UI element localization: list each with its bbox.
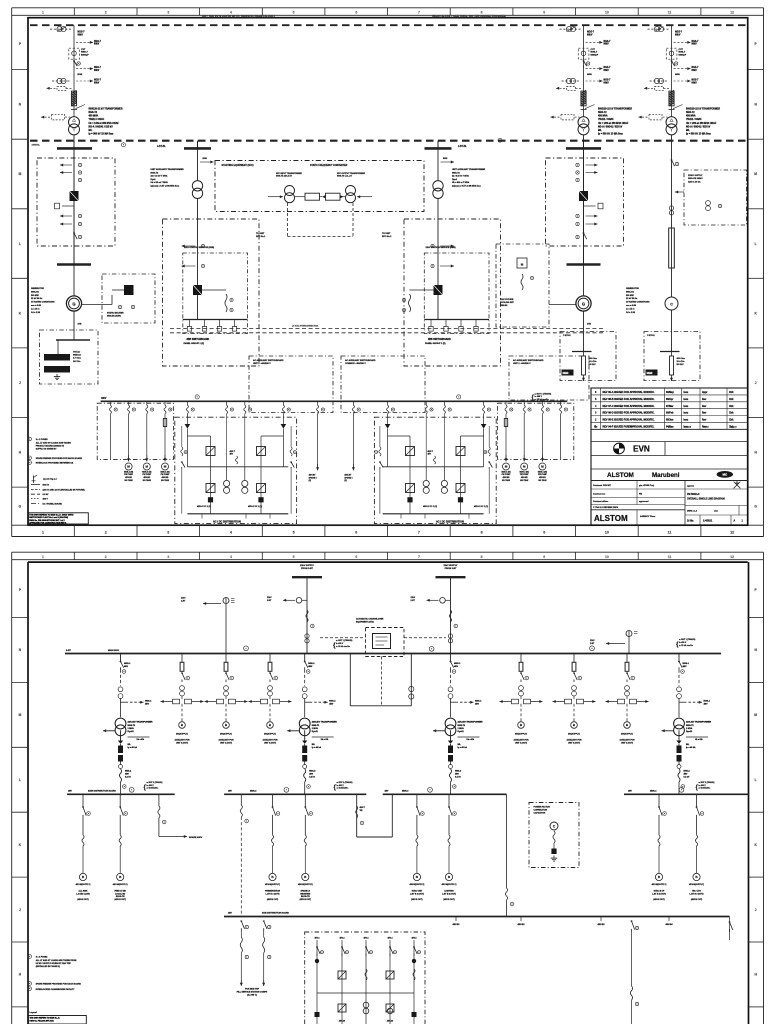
svg-text:MAIN DISTRIBUTION BOARD: MAIN DISTRIBUTION BOARD (88, 789, 116, 792)
svg-text:AC AUXILIARY SWITCHBOARD: AC AUXILIARY SWITCHBOARD (345, 359, 376, 362)
svg-text:NGS: NGS (203, 158, 208, 160)
feeder disconnector blade (521, 673, 524, 680)
400V feeder squiggle breaker (352, 401, 354, 405)
svg-text:NGS-7: NGS-7 (692, 67, 700, 69)
svg-text:Chk: Chk (729, 399, 734, 401)
segment B-C tie U-link (356, 794, 358, 837)
svg-text:4BV-3: 4BV-3 (364, 937, 369, 940)
svg-text:APPROVED FOR CONSTRUCTION REV: APPROVED FOR CONSTRUCTION REV 6 (29, 522, 66, 525)
unit aux tee busbar 1 (184, 147, 211, 150)
transformer LV black arrow down (118, 741, 123, 744)
bus node circles 400V (195, 395, 199, 399)
svg-text:WS / LTG: WS / LTG (692, 891, 701, 893)
inverter crossbox 2a (456, 484, 465, 493)
cable termination mark (585, 105, 595, 109)
svg-text:4BV-M(SUPPLY): 4BV-M(SUPPLY) (689, 883, 704, 886)
svg-text:(--B MD 1.(OR): (--B MD 1.(OR) (76, 893, 90, 895)
tap arrow right with label (121, 701, 129, 703)
bus meter node circles (244, 646, 249, 651)
svg-text:8-BT: 8-BT (66, 650, 72, 652)
drop load circle (269, 873, 276, 880)
svg-text:Contract: PHU MY: Contract: PHU MY (593, 484, 612, 487)
svg-text:FILL SERVICE STATION COMPR: FILL SERVICE STATION COMPR (237, 991, 268, 994)
svg-text:(2): (2) (344, 480, 347, 482)
sub bus right drop 1 (632, 921, 635, 930)
station service inner dashed box (424, 253, 489, 334)
svg-text:4BV-D DC 1 (2): 4BV-D DC 1 (2) (248, 505, 262, 508)
svg-text:b: 400 V: b: 400 V (679, 641, 687, 644)
transformer LV arrow left (103, 730, 116, 732)
svg-text:NGS-1: NGS-1 (475, 700, 482, 702)
svg-text:L: L (19, 242, 21, 246)
column ruler ticks top (73, 552, 75, 560)
LV feeder squiggle (678, 744, 680, 746)
svg-text:4BV: 4BV (454, 665, 459, 668)
sheet 2 notes (28, 955, 32, 959)
station service inner dashed box (183, 253, 248, 334)
motor feeder arrow (505, 455, 507, 462)
svg-text:NGS-T2: NGS-T2 (686, 112, 695, 114)
svg-text:STATIC FREQUENCY CONVERTER: STATIC FREQUENCY CONVERTER (310, 164, 348, 167)
drop squiggle (304, 835, 306, 846)
svg-text:c: Ik=15kA/1s: c: Ik=15kA/1s (699, 787, 711, 790)
svg-text:Dyn11: Dyn11 (686, 731, 693, 733)
unit auxiliary transformer (two winding circles) (433, 181, 443, 191)
svg-text:NGS-CB 245kV: NGS-CB 245kV (688, 177, 703, 180)
svg-text:AUXILIARY FOR: AUXILIARY FOR (567, 739, 583, 742)
400V feeder squiggle breaker (164, 401, 166, 405)
big ALSTOM logotype bottom (591, 509, 685, 511)
svg-text:c: 15 kA rms/1s: c: 15 kA rms/1s (336, 645, 350, 648)
svg-text:NGS-2: NGS-2 (309, 771, 316, 773)
svg-text:1250 A 40 kA: 1250 A 40 kA (688, 180, 701, 183)
drawout arrows and sockets (553, 701, 565, 703)
metering circle and arrow (440, 598, 446, 604)
wire below rectifier (483, 429, 485, 467)
svg-text:NGS-7: NGS-7 (604, 41, 612, 43)
svg-text:Uk = 14% at 450 MVA ONAF: Uk = 14% at 450 MVA ONAF (89, 122, 120, 125)
right ruler band (763, 15, 765, 525)
svg-text:LOCAL BD: LOCAL BD (115, 892, 126, 895)
drop load circle (655, 873, 662, 880)
drop load circle (693, 873, 700, 880)
svg-text:L-BT B 2 (OUT): L-BT B 2 (OUT) (442, 893, 456, 895)
svg-text:3: 3 (167, 10, 169, 14)
breaker side isolator stub (584, 205, 596, 207)
svg-text:M: M (146, 465, 149, 469)
svg-text:MG(SUPPLY): MG(SUPPLY) (515, 734, 527, 736)
wire to 400V main distribution bus (304, 782, 306, 794)
svg-text:SPARE LV: SPARE LV (301, 890, 311, 893)
cable termination mark (673, 105, 683, 109)
svg-text:ALL LT AND ST LOADS ARE TAKEN: ALL LT AND ST LOADS ARE TAKEN (36, 441, 72, 444)
station service switchgear outer dashed box (404, 219, 501, 366)
svg-text:NGS: NGS (587, 74, 592, 76)
svg-text:11: 11 (668, 10, 672, 14)
svg-text:EVN: EVN (633, 445, 650, 454)
svg-text:Issu: Issu (684, 420, 689, 422)
tap arrow right with label (451, 701, 459, 703)
svg-text:Uk = 6%: Uk = 6% (467, 739, 475, 741)
incoming squiggle breaker (306, 610, 308, 622)
svg-text:6.6 kV: 6.6 kV (43, 494, 50, 496)
svg-text:Title: Title (628, 426, 633, 429)
svg-text:DC / PANEL BOUND: DC / PANEL BOUND (43, 502, 63, 505)
wire below rectifier (387, 429, 389, 467)
wire below rectifier (282, 429, 284, 467)
MCC fuse feeder rect (163, 419, 166, 427)
svg-text:450 MVA: 450 MVA (686, 115, 696, 118)
charger crossbox 1b (257, 447, 266, 456)
svg-text:a: NOT 1 (750kVA): a: NOT 1 (750kVA) (337, 781, 353, 784)
svg-text:HVAC B OP: HVAC B OP (654, 890, 665, 893)
svg-text:MAIN BUS: MAIN BUS (108, 649, 119, 652)
UPS side squiggle chain b (290, 447, 292, 456)
wire generator 2 to excitation box (549, 304, 576, 306)
22kV dashed distribution bus (30, 140, 746, 142)
svg-text:UNIT 2 - 400/230 V: UNIT 2 - 400/230 V (513, 362, 531, 365)
svg-text:FROM LV BOARD (400/230 V): FROM LV BOARD (400/230 V) (36, 445, 65, 448)
SFC converter reactor 1 (rect) (305, 193, 320, 200)
svg-text:5: 5 (293, 555, 295, 559)
svg-text:Rev: Rev (702, 420, 707, 422)
svg-text:Uk = 14% at 450 MVA ONAF: Uk = 14% at 450 MVA ONAF (598, 122, 629, 125)
svg-text:MDB-1 (M): MDB-1 (M) (538, 472, 548, 474)
svg-text:300 MW: 300 MW (31, 295, 39, 297)
svg-text:NGS-7: NGS-7 (94, 41, 102, 43)
svg-text:22kV SUPPLY: 22kV SUPPLY (300, 565, 315, 567)
svg-text:ta = 45 C: ta = 45 C (626, 307, 635, 310)
svg-text:SPARE 400V: SPARE 400V (189, 836, 203, 839)
svg-text:AUXILIARY FOR: AUXILIARY FOR (620, 739, 636, 742)
column ruler ticks top (73, 8, 75, 16)
svg-text:MDB-1 (M): MDB-1 (M) (520, 472, 530, 474)
svg-text:PANEL GROUP 1 (2): PANEL GROUP 1 (2) (425, 342, 446, 345)
surge arrester tap with arrow (76, 41, 93, 43)
current transformer pair on line (562, 80, 581, 82)
motor feeder arrow (541, 455, 543, 462)
drop load circle (79, 873, 86, 880)
svg-text:NGS-1: NGS-1 (308, 663, 315, 665)
feeder disconnector blade (182, 673, 185, 680)
svg-text:AN : 500 kV a 220 50 Hz PL 5: AN : 500 kV a 220 50 Hz PL 500kV/11 (NGM… (202, 14, 275, 18)
svg-text:NGS-7: NGS-7 (591, 52, 598, 54)
svg-text:ALSTOM: ALSTOM (607, 472, 634, 479)
arrow tap 4 (60, 223, 72, 225)
svg-text:60kV: 60kV (692, 82, 698, 84)
svg-text:PRESERVATION: PRESERVATION (265, 890, 281, 893)
panel reactor squiggle (225, 294, 227, 312)
svg-text:3 x 1 FUSES: 3 x 1 FUSES (36, 957, 48, 959)
feeder CT circles (519, 686, 524, 691)
inverter crossbox 2b (406, 484, 415, 493)
svg-text:2-BT-BL: 2-BT-BL (458, 146, 467, 148)
svg-text:12: 12 (730, 10, 734, 14)
distribution transformer (two winding circles) (674, 718, 685, 729)
svg-text:0.4 kV: 0.4 kV (309, 775, 315, 778)
400V feeder squiggle breaker (128, 401, 130, 405)
svg-text:G: G (72, 301, 75, 306)
excitation circled numbers (118, 305, 121, 308)
svg-text:SFC No.1: SFC No.1 (256, 236, 266, 238)
svg-text:a: NOT 1 (750kVA): a: NOT 1 (750kVA) (535, 392, 552, 395)
svg-text:450 MVA: 450 MVA (89, 115, 99, 118)
charger crossbox 1b (406, 447, 415, 456)
svg-text:C 794-2-2 REVIEW DWG: C 794-2-2 REVIEW DWG (593, 506, 618, 509)
capacitive voltage transformer in dashed box (69, 48, 80, 59)
400V feeder squiggle breaker (387, 401, 389, 405)
dashed wire to motor (626, 704, 628, 722)
automatic changeover dashed box (366, 628, 405, 657)
EVN logo circle (614, 443, 625, 454)
svg-text:4BV: 4BV (455, 772, 460, 775)
svg-text:UNIT 1 (OUT): UNIT 1 (OUT) (568, 742, 580, 744)
drawout arrows and sockets (249, 701, 261, 703)
svg-text:16 Ma: 16 Ma (687, 521, 694, 523)
segment A spare stub (158, 806, 160, 818)
incomer breaker (filled square) (434, 285, 443, 295)
sub-distribution drop blade (696, 794, 698, 807)
svg-text:NGS-E1 (AVR): NGS-E1 (AVR) (107, 315, 121, 318)
feeder CT circles (625, 686, 630, 691)
svg-text:approx: approx (687, 485, 695, 488)
svg-text:Ip(max) = 0.57 at 88 MVA 5ms: Ip(max) = 0.57 at 88 MVA 5ms (151, 185, 181, 188)
svg-text:10 A 10s: 10 A 10s (677, 360, 686, 363)
svg-text:LIGHTING: LIGHTING (444, 891, 454, 893)
cable sealing end arrow left (655, 86, 664, 90)
drop wire down (696, 846, 698, 873)
LV breaker black blocks (677, 746, 682, 754)
feeder stubs with breakers below bus (189, 320, 191, 327)
svg-text:NG 1kV: NG 1kV (589, 364, 597, 366)
current transformer pair on line (52, 80, 71, 82)
svg-text:5000pF: 5000pF (81, 55, 89, 57)
drop load circle (445, 873, 452, 880)
dashed wire to motor (573, 704, 575, 722)
tap arrow right with label (305, 701, 313, 703)
svg-text:FW PUMP: FW PUMP (161, 474, 170, 476)
generator tee busbar (57, 263, 91, 266)
svg-text:a: NOT 1 (750kVA): a: NOT 1 (750kVA) (679, 638, 696, 641)
svg-text:5: 5 (293, 10, 295, 14)
svg-text:a) pole leg p-1: a) pole leg p-1 (43, 478, 58, 480)
svg-text:MDB-3: MDB-3 (402, 790, 409, 792)
svg-text:500/220-22 kV TRANSFORMER: 500/220-22 kV TRANSFORMER (686, 108, 720, 111)
revision table (591, 387, 748, 389)
svg-text:Ip = 40 kA: Ip = 40 kA (312, 746, 322, 749)
legend line type 3 (31, 493, 40, 495)
surge arrester tap with arrow (674, 41, 691, 43)
svg-text:NGS-7: NGS-7 (604, 67, 612, 69)
svg-text:SUB DISTRIBUTION BOARD: SUB DISTRIBUTION BOARD (262, 912, 289, 915)
svg-text:4BV-M(SUPPLY): 4BV-M(SUPPLY) (265, 883, 280, 886)
motor circle (179, 722, 186, 729)
svg-text:FROM 2-BT: FROM 2-BT (301, 568, 313, 570)
UPS side squiggle chain a (488, 447, 490, 456)
svg-text:Apprd: Apprd (730, 426, 737, 429)
svg-text:4BV-D DC 1 (2): 4BV-D DC 1 (2) (423, 505, 437, 508)
battery circles b (242, 480, 248, 486)
svg-text:Ip(max) = 0.57 at 88 MVA 5ms: Ip(max) = 0.57 at 88 MVA 5ms (452, 185, 482, 188)
MCC feeder wire (128, 414, 130, 460)
wire to 400V main distribution bus (450, 782, 452, 794)
svg-text:11: 11 (668, 531, 672, 535)
svg-text:AUXILIARY FOR: AUXILIARY FOR (175, 739, 191, 742)
svg-text:COOLING SET: COOLING SET (500, 302, 515, 304)
svg-text:CVT: CVT (81, 49, 86, 51)
drop wire down (448, 846, 450, 873)
svg-text:COMMON - 400/230 V: COMMON - 400/230 V (345, 362, 366, 365)
svg-text:Ip = 500 kV 13 MA 5ms: Ip = 500 kV 13 MA 5ms (598, 132, 624, 135)
voltage transformer stub (78, 178, 81, 181)
svg-text:22 kV 50 Hz: 22 kV 50 Hz (626, 298, 637, 300)
svg-text:AUXILIARY FOR: AUXILIARY FOR (514, 739, 530, 742)
svg-text:STATIC EXCITER: STATIC EXCITER (107, 312, 124, 315)
drawout arrows and sockets (161, 701, 173, 703)
svg-text:M: M (523, 465, 526, 469)
cable sealing end arrow left (567, 86, 576, 90)
svg-text:Date: Date (668, 426, 674, 429)
LC panel dashed box B (341, 356, 425, 413)
note 1 with circled number (28, 437, 32, 441)
svg-text:L-BT B 2 (OUT): L-BT B 2 (OUT) (690, 893, 704, 895)
svg-text:NG-A / 60/241 / 525 kV: NG-A / 60/241 / 525 kV (686, 125, 711, 128)
unit 2 tee busbar (566, 147, 601, 150)
svg-text:b: 400 V: b: 400 V (337, 784, 345, 787)
svg-text:4BV-T: 4BV-T (428, 450, 434, 453)
charger vertical wires (460, 436, 462, 514)
bottom box link line (317, 992, 414, 994)
svg-text:PANEL GROUP 1 (2): PANEL GROUP 1 (2) (184, 342, 205, 345)
wire to 400V main distribution bus (678, 782, 680, 794)
svg-text:4BV-M(SUPPLY): 4BV-M(SUPPLY) (410, 883, 425, 886)
400V feeder squiggle breaker (109, 401, 111, 405)
svg-text:NGS-7: NGS-7 (604, 79, 612, 81)
svg-text:ARRIVAL: ARRIVAL (32, 144, 41, 147)
incoming wire to bus (450, 577, 452, 653)
svg-text:NGS-T1: NGS-T1 (458, 725, 466, 727)
svg-text:BIL: BIL (89, 130, 93, 132)
bay 3 side metering dashed box (684, 170, 747, 225)
svg-text:L: L (755, 778, 757, 782)
EVN logo row (591, 455, 748, 457)
earthing transformer (filled blocks) (57, 340, 59, 354)
MCC feeder wire (560, 414, 562, 460)
svg-text:ALL LT AND ST LOADS ARE TAKEN: ALL LT AND ST LOADS ARE TAKEN FROM (36, 959, 77, 962)
svg-text:Rev: Rev (702, 399, 707, 401)
svg-text:L: L (19, 778, 21, 782)
svg-text:NGS-1: NGS-1 (329, 700, 336, 702)
sub-distribution drop blade (304, 794, 306, 807)
svg-text:Issu: Issu (684, 406, 689, 408)
svg-text:3 x 1 FUSES: 3 x 1 FUSES (36, 439, 49, 441)
svg-text:RECEIVED: RECEIVED (300, 893, 311, 895)
svg-text:4BV-M(SUPPLY): 4BV-M(SUPPLY) (113, 883, 128, 886)
MCC dashed box unit 2 (498, 403, 574, 459)
svg-text:BLDG-TN: BLDG-TN (301, 896, 310, 898)
SFC input arrow (268, 196, 283, 198)
svg-text:4BV: 4BV (145, 702, 150, 705)
svg-text:(4BV-B OUT): (4BV-B OUT) (267, 898, 279, 901)
svg-text:b: 400 V: b: 400 V (336, 642, 344, 645)
svg-text:4BV-B2: 4BV-B2 (517, 923, 525, 926)
svg-text:AC AUXILIARY SWITCHBOARD: AC AUXILIARY SWITCHBOARD (513, 359, 544, 362)
svg-text:60kV: 60kV (94, 82, 100, 84)
motor feeder fuse (181, 654, 183, 663)
svg-text:J: J (755, 381, 757, 385)
svg-text:Uk = 8% at 7 MVA: Uk = 8% at 7 MVA (452, 181, 470, 184)
transformer LV black arrow down (676, 741, 681, 744)
motor circle (521, 463, 528, 470)
svg-text:4BV-M2: 4BV-M2 (143, 476, 150, 479)
sub-distribution drop blade (272, 794, 274, 807)
svg-text:NGS-1: NGS-1 (454, 663, 461, 665)
svg-text:Xd = 2.38: Xd = 2.38 (626, 312, 636, 314)
400V feeder squiggle breaker (443, 401, 445, 405)
svg-text:FW PUMP: FW PUMP (142, 474, 151, 476)
generator neutral wire (583, 311, 585, 331)
svg-text:450 MVA: 450 MVA (598, 115, 608, 118)
UPS bottom bus (187, 513, 288, 515)
svg-text:NG 75kW: NG 75kW (502, 480, 510, 482)
HV cable (hatched bar) (669, 91, 674, 106)
svg-text:CVT: CVT (591, 49, 596, 51)
drawing frame outer border (12, 551, 764, 553)
svg-text:500/220-22 kV TRANSFORMER: 500/220-22 kV TRANSFORMER (89, 108, 123, 111)
svg-text:NGS-T2: NGS-T2 (598, 112, 607, 114)
svg-text:ALSTOM: ALSTOM (594, 514, 628, 523)
starting frequency converter SFC dashed box (215, 161, 424, 212)
MCC feeder wire (164, 414, 166, 460)
NGR label (filled) (646, 370, 658, 376)
svg-text:22/0.4kV TRANSFORMER: 22/0.4kV TRANSFORMER (128, 721, 154, 724)
drawing frame outer border (12, 7, 764, 9)
note 3 (28, 461, 32, 465)
400V main distribution bus segment A (67, 793, 175, 795)
svg-text:LV BD / SUPPLY GIVEN BY 22kV T: LV BD / SUPPLY GIVEN BY 22kV TRF (36, 963, 72, 965)
bay 3 machine circle (665, 297, 678, 310)
feeder CT circles (180, 686, 185, 691)
drawout arrows and sockets (500, 701, 512, 703)
svg-text:SWITCHYARD PLANT No.1 and 2 (: SWITCHYARD PLANT No.1 and 2 (NG-EVN) (29, 516, 68, 519)
drop wire down (82, 846, 84, 873)
svg-text:400V: 400V (101, 397, 107, 400)
svg-text:YNd11 / ONAF: YNd11 / ONAF (686, 118, 702, 121)
motor feeder arrow (146, 455, 148, 462)
MCC dashed box unit 1 (97, 403, 173, 459)
svg-text:MG(SUPPLY): MG(SUPPLY) (568, 734, 580, 736)
svg-text:NGS-2: NGS-2 (684, 771, 691, 773)
svg-text:NGS-T5 22/1.4 kV: NGS-T5 22/1.4 kV (276, 175, 293, 178)
svg-text:Xd = 2.38: Xd = 2.38 (31, 312, 41, 314)
arrow tap a (440, 245, 454, 247)
svg-text:60kV: 60kV (604, 82, 610, 84)
station service LV busbar (183, 319, 248, 321)
svg-text:4BV-D2: 4BV-D2 (387, 1020, 393, 1023)
svg-text:6: 6 (355, 10, 357, 14)
SFC transformer 1 (two winding circles) (285, 186, 295, 196)
svg-text:22/0.4kV TRANSFORMER: 22/0.4kV TRANSFORMER (686, 721, 712, 724)
svg-text:400 Ohm: 400 Ohm (677, 357, 686, 360)
feeder disconnector blade (679, 662, 682, 668)
svg-text:a: NOT 1 (750kVA): a: NOT 1 (750kVA) (147, 781, 163, 784)
unit auxiliary transformer (two winding circles) (192, 181, 202, 191)
svg-text:NG 75kW: NG 75kW (143, 480, 151, 482)
incoming wire to bus (306, 577, 308, 653)
svg-text:UNIT AUXILIARY TRANSFORMER: UNIT AUXILIARY TRANSFORMER (452, 168, 486, 171)
legend line type 2 (31, 488, 40, 490)
bus node circle 2 (498, 138, 502, 142)
